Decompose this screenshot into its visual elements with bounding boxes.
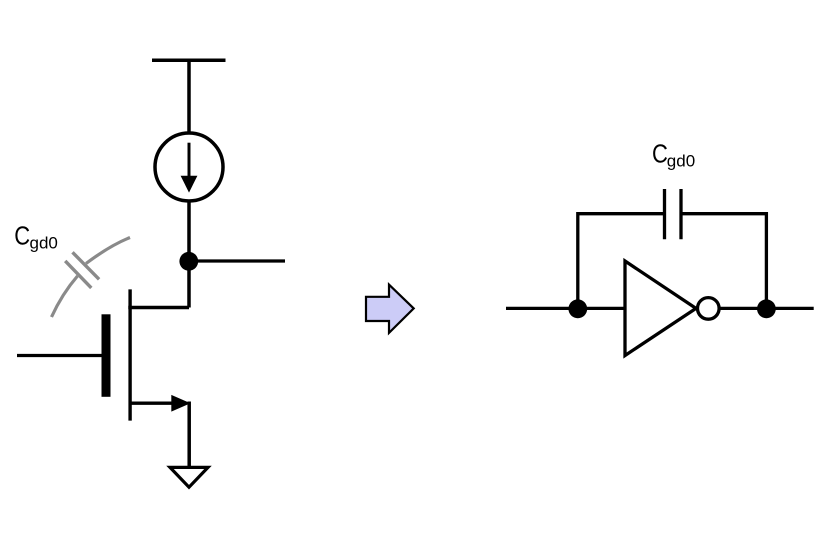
svg-text:C: C: [652, 140, 668, 169]
svg-text:C: C: [14, 222, 30, 251]
svg-text:gd0: gd0: [667, 151, 695, 170]
svg-text:gd0: gd0: [30, 234, 58, 253]
